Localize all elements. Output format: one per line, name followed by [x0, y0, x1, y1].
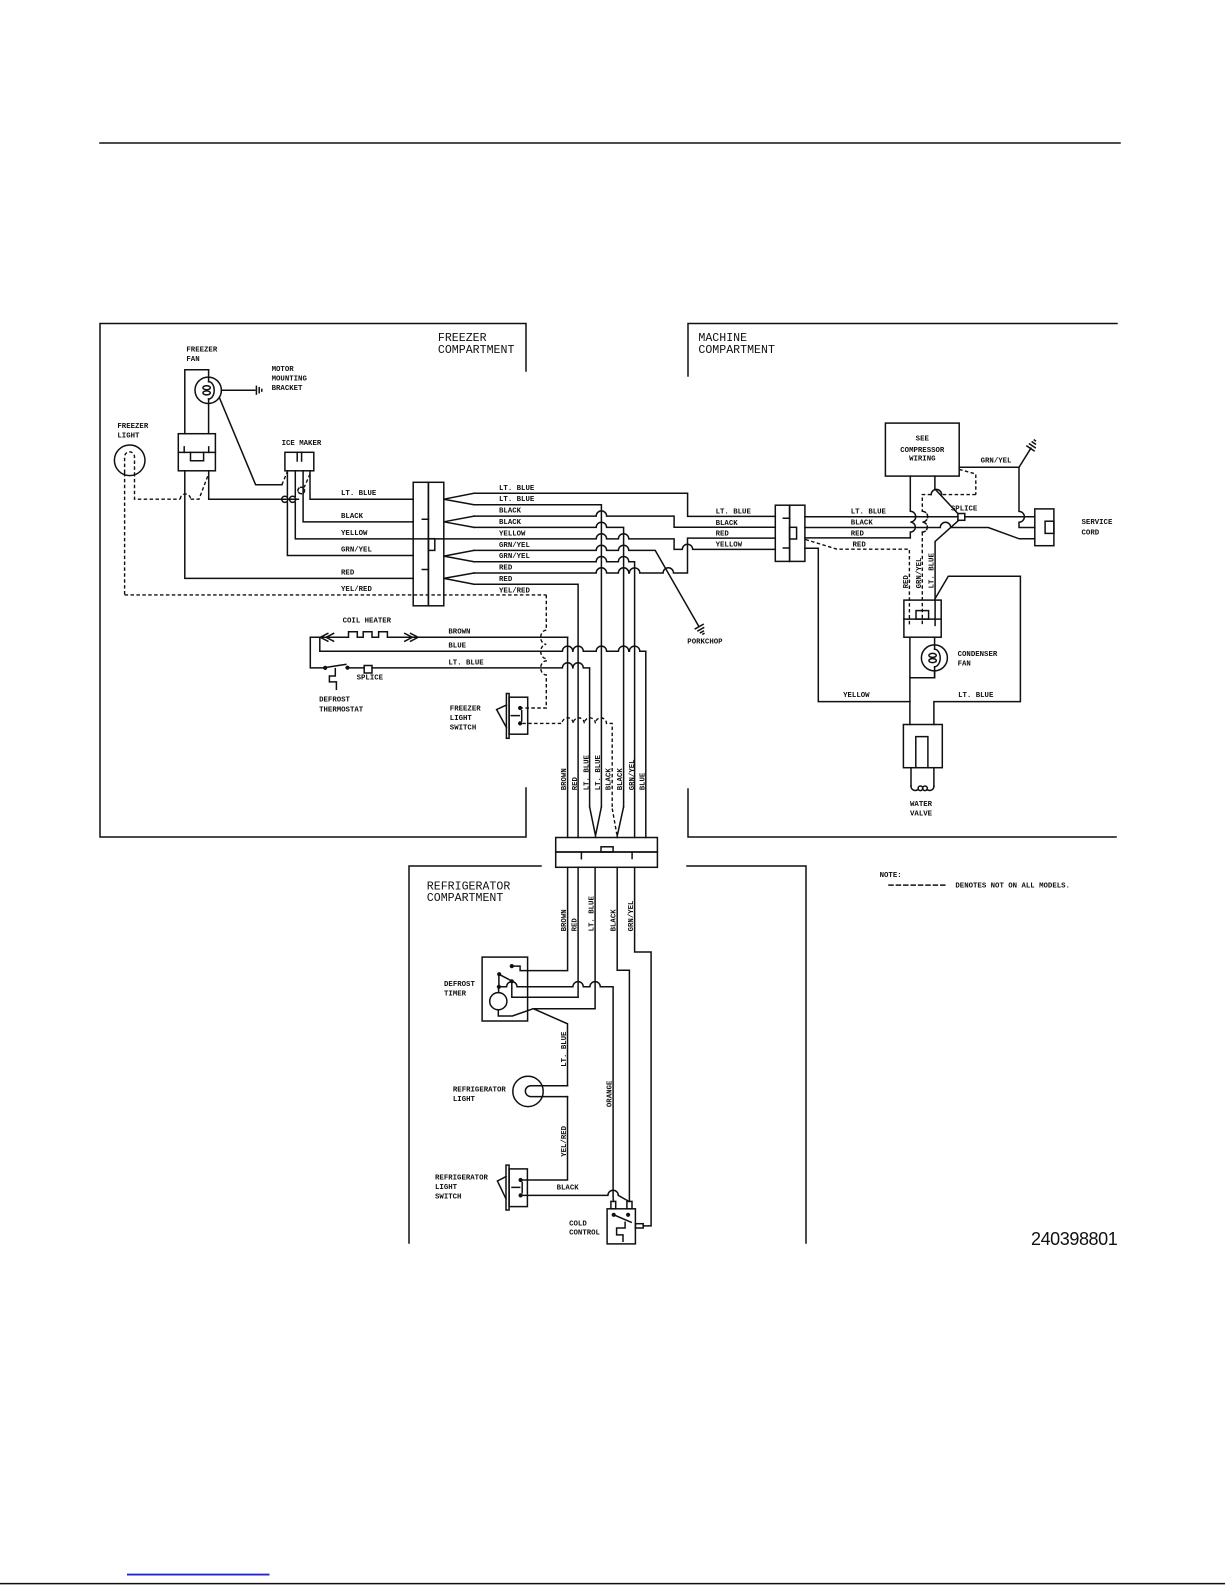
wire BROWN vertical to connector	[567, 637, 569, 837]
wire BLACK from switch to cold control (bump over orange)	[523, 1190, 629, 1201]
svg-text:COMPRESSOR: COMPRESSOR	[900, 447, 945, 455]
timer contact A	[510, 964, 514, 968]
wire through motor	[208, 370, 210, 434]
svg-text:RED: RED	[903, 575, 911, 589]
svg-text:LT. BLUE: LT. BLUE	[448, 659, 484, 667]
svg-text:LT. BLUE: LT. BLUE	[595, 754, 603, 790]
wire GRN/YEL down to service cord (hop over LT.BLUE row)	[1019, 467, 1035, 527]
wire BLUE row from heater (bumps 567.6,578.1,601.4,623.6,634.6)	[320, 637, 646, 837]
splice (freezer)	[350, 667, 365, 669]
svg-text:240398801: 240398801	[1031, 1229, 1118, 1249]
wire splice diagonal down to condenser fan LT.BLUE	[935, 520, 959, 625]
condenser fan motor	[934, 637, 936, 678]
svg-text:LT. BLUE: LT. BLUE	[929, 553, 937, 589]
svg-text:COMPARTMENT: COMPARTMENT	[438, 344, 515, 357]
refrigerator compartment border	[409, 866, 541, 1243]
connector fanout A (LT.BLUE pair)	[444, 493, 474, 504]
water valve	[903, 725, 942, 768]
svg-text:ICE MAKER: ICE MAKER	[282, 440, 322, 448]
wire motor to ice maker pin1	[220, 398, 282, 485]
svg-text:YELLOW: YELLOW	[843, 692, 870, 700]
svg-text:BLACK: BLACK	[617, 768, 625, 791]
coil heater element with arrows	[310, 632, 567, 638]
svg-text:YELLOW: YELLOW	[716, 541, 743, 549]
svg-text:FREEZER: FREEZER	[450, 706, 481, 714]
wire machine RED row to compressor wire	[805, 537, 910, 539]
refrigerator harness connector	[556, 838, 658, 853]
svg-text:FAN: FAN	[958, 660, 971, 668]
V-merge LT.BLUE pair into refrigerator connector	[590, 807, 602, 838]
svg-text:COLD: COLD	[569, 1220, 587, 1228]
cold control	[607, 1209, 635, 1244]
svg-text:DEFROST: DEFROST	[319, 697, 350, 705]
svg-text:RED: RED	[499, 576, 513, 584]
connector fanout C (GRN/YEL pair)	[444, 550, 474, 561]
wire YEL/RED dashed from freezer light down	[124, 473, 126, 595]
svg-text:BROWN: BROWN	[448, 629, 470, 637]
wire GRN/YEL solid to ground	[959, 448, 1031, 467]
defrost thermostat	[323, 666, 327, 670]
wire row2 LT.BLUE down	[474, 505, 601, 807]
wire timer motor to LT.BLUE junction and light	[498, 1009, 567, 1086]
wire YEL/RED dashed row to connector	[125, 594, 547, 596]
wire row4 BLACK down (bump at 601.4)	[474, 522, 624, 807]
svg-text:PORKCHOP: PORKCHOP	[687, 639, 723, 647]
wire dashed GRN/YEL from compressor box to condenser fan	[959, 469, 976, 494]
svg-text:LT. BLUE: LT. BLUE	[716, 508, 752, 516]
wire fan box right pin LT.BLUE run	[209, 471, 299, 499]
wire fan box left pin RED run	[185, 471, 413, 579]
wire LT.BLUE down to timer junction	[533, 867, 595, 1008]
svg-text:MOUNTING: MOUNTING	[272, 376, 308, 384]
refrigerator light filament	[525, 1086, 567, 1097]
wire condenser fan return loop	[910, 637, 935, 678]
svg-text:FREEZER: FREEZER	[186, 346, 217, 354]
V-merge BLACK pair (dashed+solid) into connector	[612, 809, 617, 835]
svg-text:BRACKET: BRACKET	[272, 385, 303, 393]
machine compartment connector	[775, 505, 789, 561]
svg-text:LIGHT: LIGHT	[450, 715, 473, 723]
wire water valve left lead	[909, 678, 911, 725]
wire RED down to defrost timer	[577, 867, 579, 997]
wire YEL/RED down to light switch	[523, 1097, 568, 1180]
ice maker pin1 wire to GRN/YEL row	[286, 471, 288, 496]
svg-text:DENOTES NOT ON ALL MODELS.: DENOTES NOT ON ALL MODELS.	[955, 882, 1070, 890]
svg-text:SPLICE: SPLICE	[357, 675, 384, 683]
svg-text:GRN/YEL: GRN/YEL	[499, 553, 530, 561]
wire freezer fan frame loop	[185, 370, 209, 434]
svg-text:LT. BLUE: LT. BLUE	[499, 496, 535, 504]
svg-text:LT. BLUE: LT. BLUE	[341, 490, 377, 498]
svg-text:FREEZER: FREEZER	[117, 423, 148, 431]
wire BROWN down to defrost timer	[514, 867, 568, 970]
timer contact D wire to ORANGE (bumps 511.8,578.1,595.1)	[497, 985, 501, 989]
svg-text:LT. BLUE: LT. BLUE	[583, 754, 591, 790]
svg-text:LT. BLUE: LT. BLUE	[851, 509, 887, 517]
machine compartment border bottom	[688, 789, 1116, 837]
water valve coil leads	[911, 768, 934, 787]
svg-text:BLACK: BLACK	[606, 768, 614, 791]
svg-text:RED: RED	[572, 776, 580, 790]
wire dashed motor link to pin1	[282, 472, 288, 485]
svg-text:COMPARTMENT: COMPARTMENT	[698, 344, 775, 357]
wire dashed switch bottom run with scallops over 567.6,578.1,589.6,601.4	[522, 718, 612, 809]
svg-text:WIRING: WIRING	[909, 456, 936, 464]
ice maker pin4 wire to LT.BLUE row	[310, 471, 413, 499]
timer contact B and arm	[497, 972, 501, 976]
svg-text:CORD: CORD	[1082, 530, 1100, 538]
ice maker box	[285, 452, 314, 471]
freezer harness connector	[413, 482, 428, 606]
svg-text:COIL HEATER: COIL HEATER	[343, 617, 392, 625]
wire YELLOW row through connector	[413, 538, 444, 540]
svg-text:GRN/YEL: GRN/YEL	[629, 759, 637, 790]
motor mounting bracket symbol	[255, 386, 257, 394]
svg-text:YEL/RED: YEL/RED	[561, 1125, 569, 1156]
svg-text:BLACK: BLACK	[499, 519, 522, 527]
svg-text:SPLICE: SPLICE	[951, 506, 978, 514]
svg-text:LT. BLUE: LT. BLUE	[958, 692, 994, 700]
svg-text:LIGHT: LIGHT	[117, 433, 140, 441]
ground symbol (GRN/YEL)	[1027, 446, 1034, 451]
svg-text:LT. BLUE: LT. BLUE	[499, 485, 535, 493]
wire heater left end down to thermostat row	[310, 637, 323, 668]
svg-text:YELLOW: YELLOW	[341, 530, 368, 538]
svg-text:GRN/YEL: GRN/YEL	[981, 458, 1012, 466]
svg-text:RED: RED	[499, 565, 513, 573]
wire row6 GRN/YEL to porkchop (bumps 601.4,623.6)	[474, 545, 699, 626]
svg-text:GRN/YEL: GRN/YEL	[341, 547, 372, 555]
svg-text:SWITCH: SWITCH	[450, 724, 476, 732]
wire machine BLACK row to service cord (bump over splice diagonal)	[805, 522, 1035, 539]
ice maker pin3 wire to BLACK row	[303, 471, 413, 522]
svg-text:ORANGE: ORANGE	[607, 1080, 615, 1107]
wire splice to service cord	[965, 516, 1035, 518]
wire row7 GRN/YEL down (bumps 601.4,623.6)	[474, 557, 635, 838]
wire row5 YELLOW to machine YELLOW row (bumps 601.4,623.6 then step down, bump 687.5)	[444, 534, 776, 550]
svg-text:RED: RED	[853, 542, 867, 550]
svg-text:RED: RED	[341, 569, 355, 577]
freezer fan box	[178, 434, 215, 471]
wire motor to mounting bracket	[221, 389, 254, 391]
svg-text:WATER: WATER	[910, 801, 933, 809]
service cord plug	[1035, 509, 1054, 546]
machine compartment border top	[688, 324, 1117, 377]
refrigerator light switch	[506, 1165, 509, 1210]
blue footer underline	[127, 1574, 270, 1576]
svg-text:REFRIGERATOR: REFRIGERATOR	[435, 1175, 488, 1183]
wire row9 RED down	[474, 584, 578, 837]
svg-text:YEL/RED: YEL/RED	[341, 586, 372, 594]
dashed loop pin4 to fan lt.blue	[304, 474, 310, 487]
wire machine LT.BLUE row to splice	[805, 516, 958, 518]
wire dashed freezer light to fan box pin (hop at x=185.4)	[135, 473, 181, 499]
svg-text:THERMOSTAT: THERMOSTAT	[319, 706, 364, 714]
svg-text:YELLOW: YELLOW	[499, 530, 526, 538]
svg-text:SWITCH: SWITCH	[435, 1194, 461, 1202]
svg-text:GRN/YEL: GRN/YEL	[916, 557, 924, 588]
splice (machine)	[958, 514, 965, 521]
svg-text:BLACK: BLACK	[341, 513, 364, 521]
svg-text:REFRIGERATOR: REFRIGERATOR	[453, 1086, 506, 1094]
svg-text:SEE: SEE	[916, 435, 930, 443]
wire compressor lead 1 (S-hops over rows) to RED row	[910, 476, 915, 538]
condenser fan connector box	[904, 600, 941, 637]
freezer fan motor circle	[195, 377, 221, 403]
connector fanout D (RED pair)	[444, 573, 474, 584]
svg-text:COMPARTMENT: COMPARTMENT	[427, 892, 504, 905]
wire BLACK down with jog to cold control right prong	[617, 867, 629, 1201]
svg-text:CONDENSER: CONDENSER	[958, 651, 998, 659]
wire compressor lead 2 diagonal to splice	[935, 476, 958, 514]
wire condenser fan junction diagonal to right loop	[934, 576, 1021, 724]
wire YEL/RED dashed down with scallops	[522, 595, 546, 708]
svg-text:LIGHT: LIGHT	[435, 1184, 458, 1192]
svg-text:BLACK: BLACK	[851, 520, 874, 528]
freezer fan motor coil	[209, 382, 215, 399]
refrigerator light bulb	[513, 1076, 543, 1106]
see compressor wiring box	[885, 423, 959, 476]
porkchop ground symbol	[695, 624, 703, 628]
freezer light filament (dashed)	[125, 452, 135, 473]
timer contact C wire to RED	[510, 979, 514, 983]
timer motor	[498, 989, 500, 993]
svg-text:LT. BLUE: LT. BLUE	[561, 1031, 569, 1067]
svg-text:BLACK: BLACK	[499, 508, 522, 516]
freezer light bulb	[114, 445, 145, 476]
wire row8 RED riser to machine RED row (bumps 601.4,623.6,634.6,668.3)	[474, 538, 775, 573]
wire row1 LT.BLUE to machine LT.BLUE row	[474, 493, 775, 516]
freezer compartment border top	[100, 324, 526, 838]
svg-text:BLUE: BLUE	[640, 772, 648, 790]
svg-text:CONTROL: CONTROL	[569, 1229, 600, 1237]
svg-text:YEL/RED: YEL/RED	[499, 587, 530, 595]
svg-text:MOTOR: MOTOR	[272, 366, 295, 374]
svg-text:SERVICE: SERVICE	[1082, 519, 1113, 527]
svg-text:RED: RED	[851, 530, 865, 538]
svg-text:RED: RED	[716, 531, 730, 539]
svg-text:FAN: FAN	[186, 356, 199, 364]
svg-text:BLACK: BLACK	[716, 520, 739, 528]
freezer light switch	[506, 694, 509, 739]
wire machine YELLOW row to water valve	[805, 548, 910, 701]
svg-text:NOTE:: NOTE:	[880, 872, 902, 880]
ice maker pin2 wire to YELLOW row	[294, 471, 296, 496]
bottom rule	[0, 1583, 1225, 1585]
svg-text:DEFROST: DEFROST	[444, 981, 475, 989]
wire row3 BLACK to machine BLACK row (bump at 601.4)	[474, 511, 775, 527]
wire GRN/YEL down with jog to cold control side	[635, 867, 652, 1226]
svg-text:LIGHT: LIGHT	[453, 1096, 476, 1104]
svg-text:BLUE: BLUE	[448, 643, 466, 651]
svg-text:BLACK: BLACK	[557, 1184, 580, 1192]
defrost timer box	[482, 957, 527, 1021]
svg-text:GRN/YEL: GRN/YEL	[499, 542, 530, 550]
svg-text:VALVE: VALVE	[910, 810, 933, 818]
svg-text:TIMER: TIMER	[444, 991, 467, 999]
top rule	[100, 142, 1120, 144]
wire LT.BLUE row from splice (bumps 567.6,578.1)	[372, 663, 590, 807]
connector fanout B (BLACK pair)	[444, 516, 474, 527]
wire dashed RED row to condenser fan	[806, 540, 910, 626]
